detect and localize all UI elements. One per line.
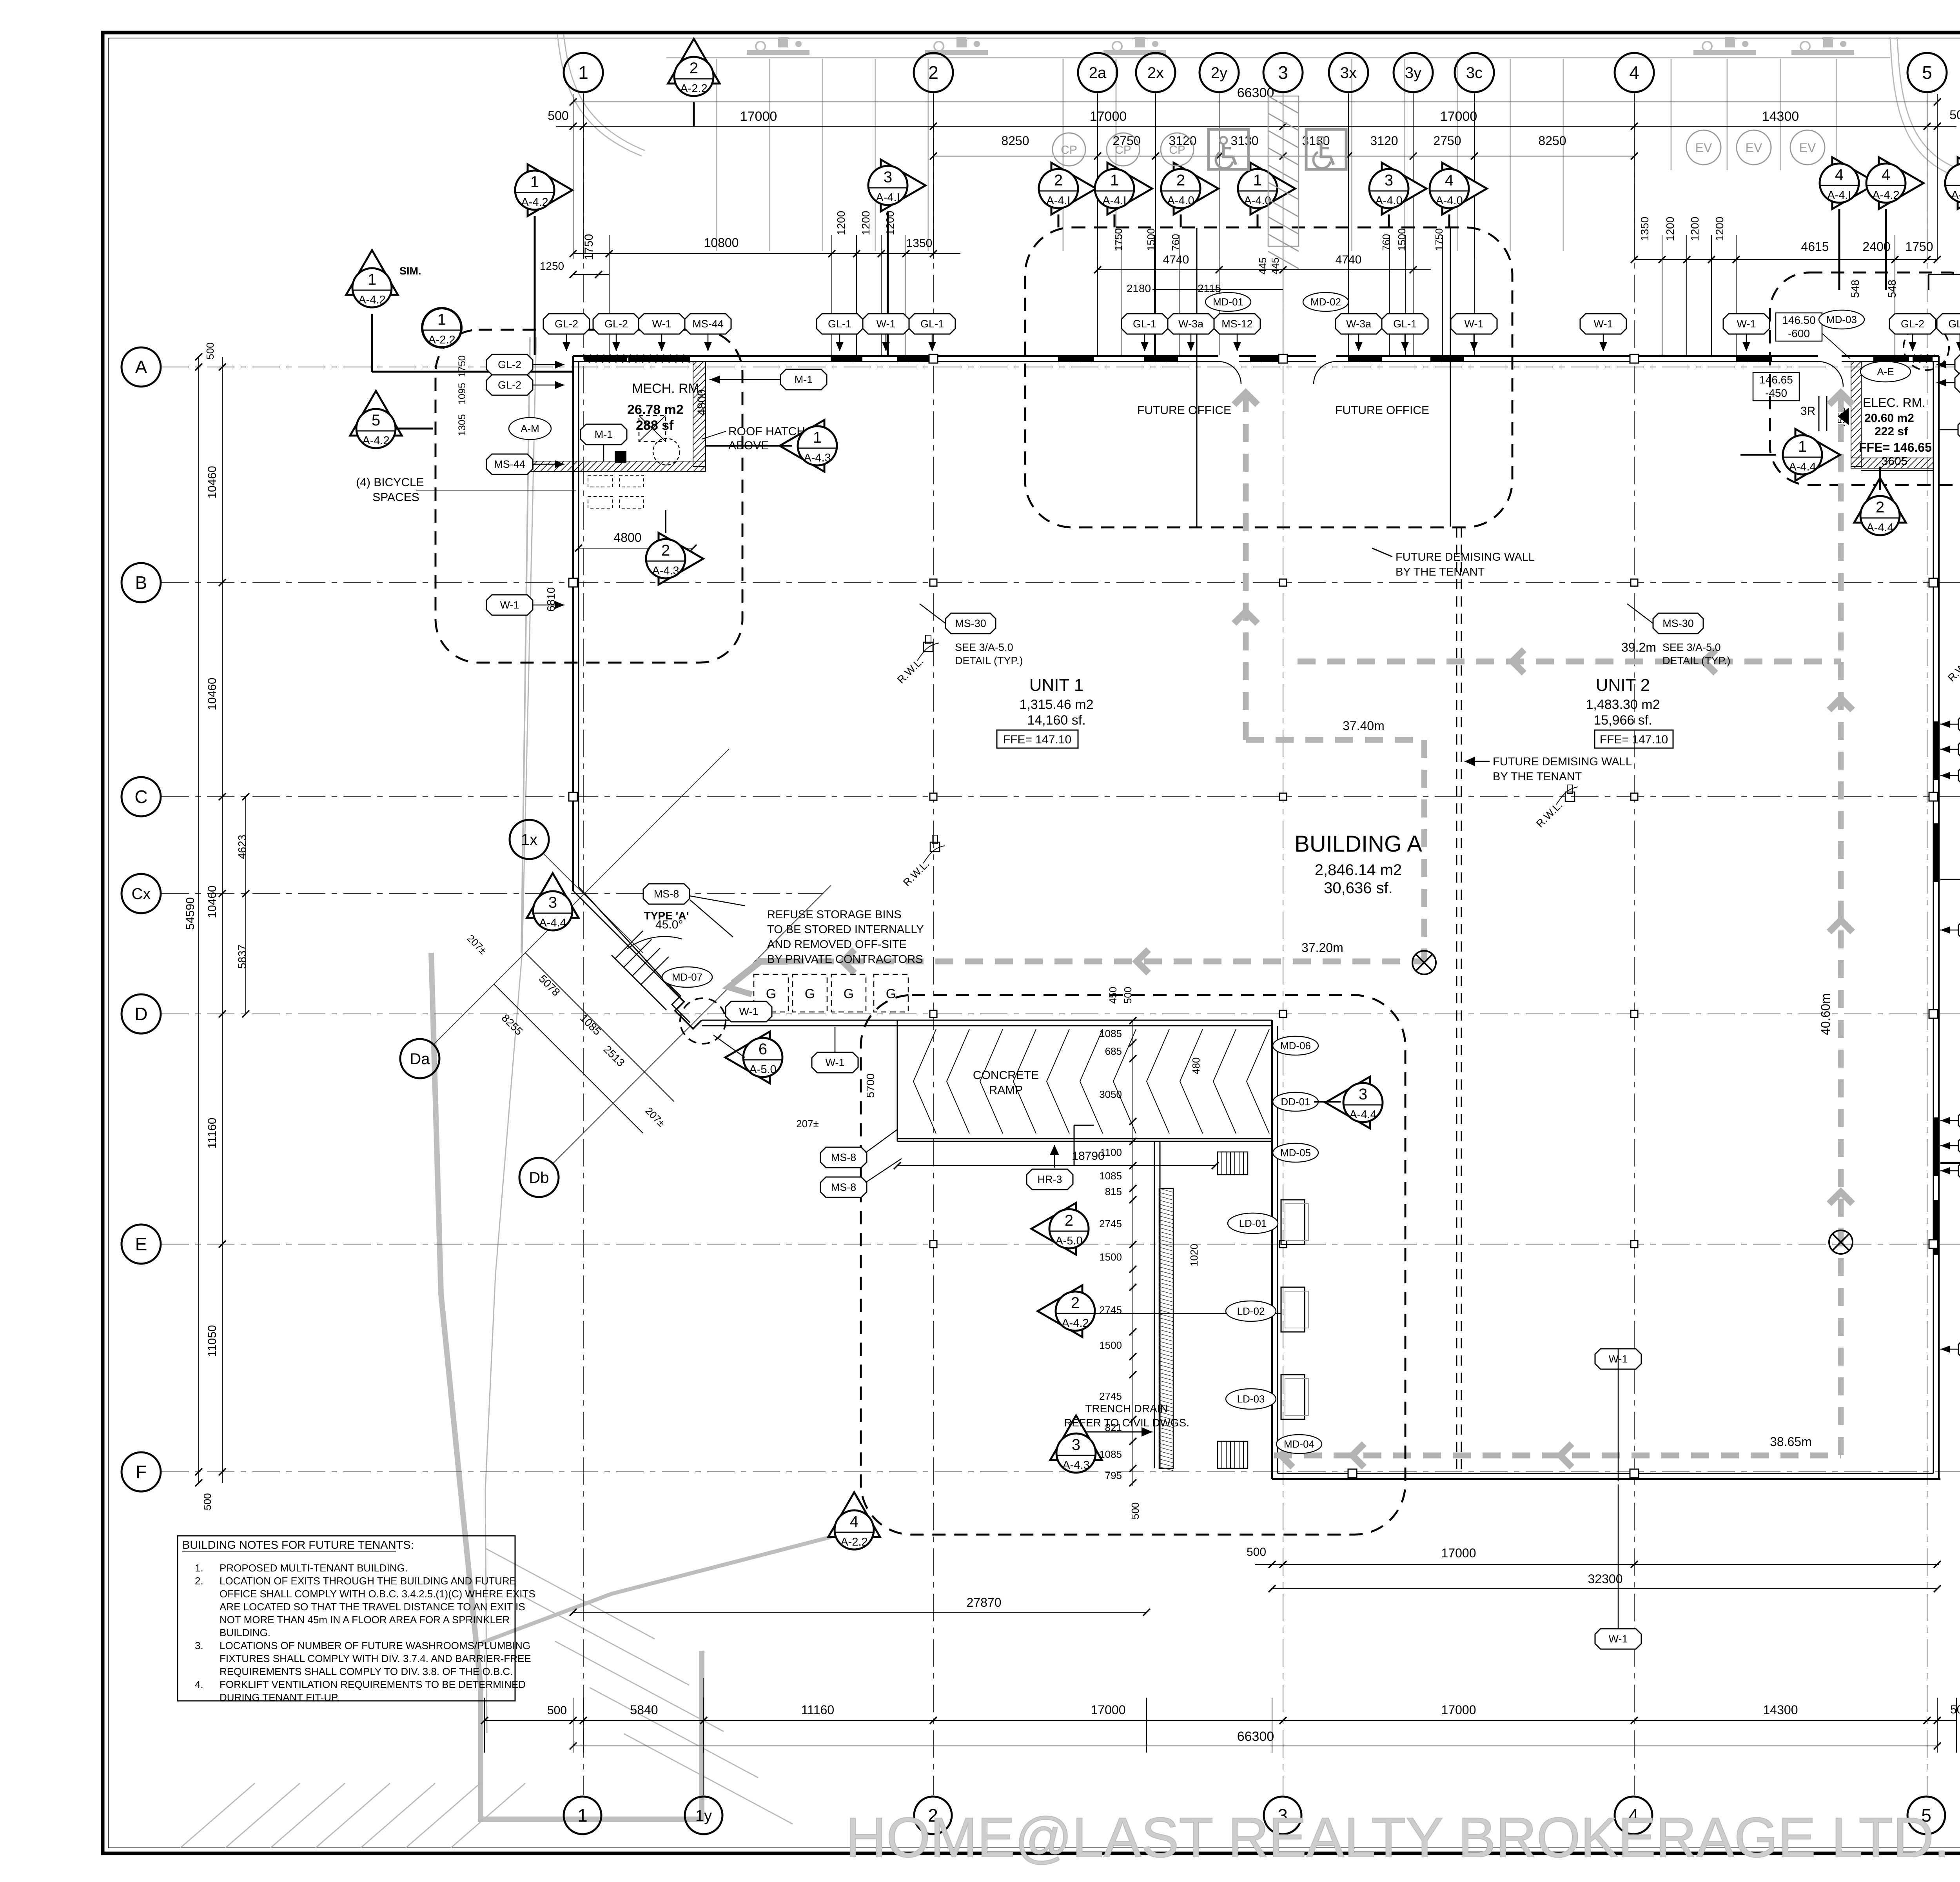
- svg-text:4: 4: [1882, 166, 1890, 183]
- mech room hatched south wall: [517, 461, 706, 471]
- dashed detail circle: [1904, 325, 1949, 370]
- svg-text:1200: 1200: [860, 211, 872, 235]
- trench drain: [1159, 1188, 1173, 1468]
- south wing local dims: [1255, 1564, 1939, 1565]
- svg-text:3: 3: [1359, 1086, 1367, 1103]
- travel path unit 1 horizontal 37.20m: [757, 959, 1424, 965]
- keynote tag MS-8: [820, 1147, 867, 1168]
- north wall glazing segment: [629, 356, 690, 361]
- svg-text:760: 760: [1170, 234, 1181, 251]
- svg-text:500: 500: [1949, 108, 1960, 122]
- EV circles: [1686, 130, 1721, 165]
- top dimension row 17000s: [556, 126, 1956, 127]
- travel path unit 1 vertical 2: [1421, 740, 1427, 961]
- svg-text:6: 6: [759, 1041, 767, 1058]
- mech room dashed boundary: [436, 330, 742, 663]
- svg-text:4800: 4800: [613, 530, 641, 545]
- svg-text:66300: 66300: [1237, 1729, 1274, 1744]
- tag MD-04: [1276, 1435, 1322, 1453]
- svg-text:W-1: W-1: [739, 1006, 758, 1017]
- svg-text:MS-30: MS-30: [955, 618, 986, 629]
- grid bubble A: [122, 347, 161, 387]
- svg-text:DURING TENANT FIT-UP.: DURING TENANT FIT-UP.: [220, 1691, 339, 1703]
- grid line Cx: [162, 893, 823, 894]
- svg-text:SIM.: SIM.: [399, 265, 421, 277]
- grid bubble D: [122, 994, 161, 1034]
- svg-text:W-3a: W-3a: [1346, 318, 1372, 330]
- svg-text:1085: 1085: [1099, 1170, 1122, 1182]
- dock dashed boundary: [861, 995, 1405, 1535]
- svg-text:DD-01: DD-01: [1281, 1096, 1310, 1108]
- left detail dim row: [573, 253, 960, 254]
- svg-text:W-3a: W-3a: [1178, 318, 1204, 330]
- svg-text:1: 1: [577, 1805, 588, 1826]
- grid line C: [162, 796, 1960, 797]
- svg-text:3120: 3120: [1370, 134, 1398, 148]
- svg-text:450: 450: [1107, 987, 1119, 1004]
- svg-text:2: 2: [1176, 172, 1185, 189]
- svg-text:1500: 1500: [1145, 228, 1157, 251]
- svg-text:17000: 17000: [740, 109, 777, 124]
- concrete ramp: [897, 1021, 898, 1141]
- section marker 5/A-4.2: [350, 391, 402, 436]
- section marker 3/A-4.4: [527, 873, 579, 918]
- svg-text:4: 4: [1445, 172, 1454, 189]
- svg-text:(4) BICYCLE: (4) BICYCLE: [356, 476, 424, 489]
- north wall glazing segment: [1348, 356, 1382, 361]
- svg-text:821: 821: [1105, 1422, 1122, 1433]
- svg-text:1100: 1100: [1100, 1146, 1122, 1158]
- svg-text:11050: 11050: [206, 1325, 219, 1357]
- keynote tag M-1: [780, 369, 827, 390]
- svg-text:14,160 sf.: 14,160 sf.: [1027, 713, 1085, 728]
- svg-text:500: 500: [201, 1493, 213, 1510]
- svg-text:A-4.3: A-4.3: [652, 565, 679, 577]
- svg-text:10460: 10460: [206, 885, 219, 918]
- keynote tag GL-2: [593, 314, 639, 334]
- grid bubble 3y: [1394, 53, 1433, 92]
- north wall glazing segment: [1737, 356, 1772, 361]
- grid bubble 5: [1907, 1797, 1945, 1834]
- parking meter marks: [756, 42, 765, 51]
- tag MD-02: [1303, 292, 1348, 311]
- wheelchair sign 1: [1209, 129, 1249, 169]
- keynote tag GL-1: [1958, 714, 1960, 734]
- travel path unit 1 horizontal 37.40m: [1246, 737, 1424, 743]
- svg-text:1500: 1500: [1099, 1339, 1122, 1351]
- svg-text:UNIT 2: UNIT 2: [1596, 676, 1650, 695]
- section marker 4/A-2.2: [828, 1492, 880, 1537]
- keynote tag GL-1: [1382, 314, 1428, 334]
- svg-text:FFE= 147.10: FFE= 147.10: [1600, 733, 1668, 746]
- west wall diagonal: [573, 891, 666, 984]
- mech room hatched east wall: [693, 362, 706, 467]
- grid line 1x diagonal: [543, 853, 643, 953]
- svg-text:TRENCH DRAIN: TRENCH DRAIN: [1085, 1402, 1168, 1415]
- svg-text:CP: CP: [1115, 144, 1131, 156]
- north wall door opening MD-02: [1316, 355, 1336, 362]
- grid bubble 2: [914, 53, 953, 92]
- svg-text:A-2.2: A-2.2: [428, 334, 455, 346]
- svg-text:MD-01: MD-01: [1213, 296, 1243, 308]
- svg-text:1200: 1200: [1713, 217, 1726, 241]
- dock stairs top MD-05: [1217, 1152, 1218, 1175]
- keynote tag GL-1: [817, 314, 863, 334]
- svg-text:ARE LOCATED SO THAT THE TRAVEL: ARE LOCATED SO THAT THE TRAVEL DISTANCE …: [220, 1601, 525, 1613]
- svg-text:MD-06: MD-06: [1280, 1040, 1311, 1052]
- road curves right: [1890, 37, 1960, 182]
- svg-text:1085: 1085: [1099, 1028, 1122, 1039]
- svg-text:2115: 2115: [1198, 282, 1221, 294]
- svg-text:EV: EV: [1799, 141, 1816, 155]
- keynote tag GL-2: [543, 314, 590, 334]
- svg-text:A-4.2: A-4.2: [1872, 189, 1899, 202]
- grid bubble 2: [914, 1797, 952, 1834]
- svg-text:E: E: [135, 1234, 147, 1254]
- tag LD-02: [1226, 1301, 1276, 1321]
- north wall: [573, 355, 1939, 357]
- grid line F: [162, 1471, 1960, 1472]
- svg-text:445: 445: [1257, 258, 1269, 274]
- travel path 39.2m horizontal: [1298, 659, 1841, 665]
- svg-text:4: 4: [850, 1513, 858, 1530]
- svg-text:445: 445: [1269, 258, 1281, 274]
- keynote tag W-1: [1723, 314, 1769, 334]
- svg-text:LOCATIONS OF NUMBER OF FUTURE: LOCATIONS OF NUMBER OF FUTURE WASHROOMS/…: [220, 1640, 530, 1651]
- top dimension row detail: [933, 156, 1634, 156]
- svg-text:C: C: [134, 787, 147, 807]
- section marker 1/A-4.0: [1250, 163, 1295, 214]
- grid line Da diagonal: [434, 749, 729, 1045]
- svg-text:685: 685: [1105, 1045, 1122, 1057]
- left dimension chain: [198, 357, 199, 1483]
- svg-text:MD-05: MD-05: [1280, 1147, 1311, 1159]
- svg-text:LD-02: LD-02: [1237, 1305, 1265, 1317]
- svg-text:G: G: [766, 986, 776, 1001]
- svg-text:CP: CP: [1061, 144, 1077, 156]
- svg-text:M-1: M-1: [795, 374, 813, 385]
- svg-text:A-4.3: A-4.3: [804, 452, 831, 464]
- CP circles: [1053, 133, 1085, 166]
- svg-text:548: 548: [1886, 280, 1898, 298]
- keynote tag W-1: [1958, 1135, 1960, 1156]
- north wall door opening MD-01: [1218, 355, 1239, 362]
- svg-text:500: 500: [547, 1704, 567, 1717]
- travel path 38.65m horizontal: [1274, 1453, 1841, 1459]
- svg-text:32300: 32300: [1588, 1572, 1623, 1586]
- section marker 3/A-4.0: [1382, 163, 1426, 214]
- interior dims 2180/2115/445: [1152, 289, 1283, 290]
- svg-text:A-4.2: A-4.2: [521, 196, 548, 209]
- accessible hatch strip: [1268, 96, 1299, 246]
- diagonal exit stair jog: [666, 984, 702, 1029]
- svg-text:FFE= 146.65: FFE= 146.65: [1859, 440, 1932, 454]
- svg-text:2a: 2a: [1089, 64, 1107, 82]
- travel path unit 1 vertical: [1243, 394, 1249, 740]
- svg-text:3R: 3R: [1800, 405, 1815, 418]
- grid bubble F: [122, 1452, 161, 1491]
- tag LD-01: [1228, 1213, 1278, 1233]
- grid bubble 1: [564, 53, 603, 92]
- svg-text:1350: 1350: [1639, 217, 1651, 241]
- svg-text:4740: 4740: [1163, 253, 1189, 266]
- svg-text:HR-3: HR-3: [1037, 1174, 1062, 1185]
- svg-text:3.: 3.: [195, 1640, 203, 1651]
- svg-text:ROOF HATCH: ROOF HATCH: [728, 425, 805, 438]
- north wall glazing segment: [898, 356, 931, 361]
- svg-text:17000: 17000: [1440, 109, 1477, 124]
- grid line 3x: [1348, 93, 1349, 254]
- svg-text:37.40m: 37.40m: [1343, 719, 1385, 733]
- svg-text:MS-8: MS-8: [831, 1181, 857, 1193]
- section marker 1/A-4.2: [346, 250, 398, 295]
- grid bubble 3x: [1329, 53, 1368, 92]
- keynote tag W-1: [1958, 1339, 1960, 1359]
- svg-text:A-4.4: A-4.4: [1789, 461, 1816, 473]
- svg-text:1350: 1350: [906, 237, 933, 250]
- svg-text:1,315.46 m2: 1,315.46 m2: [1019, 697, 1093, 712]
- svg-text:A-4.I: A-4.I: [1102, 194, 1126, 207]
- keynote tag W-1: [1958, 920, 1960, 940]
- grid bubble 3: [1263, 53, 1303, 92]
- svg-text:17000: 17000: [1441, 1703, 1476, 1717]
- dock dim chain: [1132, 1021, 1133, 1486]
- svg-text:AND REMOVED OFF-SITE: AND REMOVED OFF-SITE: [767, 938, 907, 951]
- svg-text:1750: 1750: [583, 234, 595, 260]
- svg-text:LOCATION OF EXITS THROUGH THE: LOCATION OF EXITS THROUGH THE BUILDING A…: [220, 1575, 516, 1587]
- keynote tag M-1: [581, 424, 627, 445]
- tag LD-03: [1226, 1389, 1276, 1409]
- svg-text:MS-8: MS-8: [831, 1152, 857, 1163]
- section marker 1/A-4.4: [1795, 429, 1840, 481]
- svg-text:2745: 2745: [1099, 1304, 1122, 1316]
- grid bubble 1y: [685, 1797, 722, 1834]
- svg-text:FUTURE DEMISING WALL: FUTURE DEMISING WALL: [1396, 551, 1535, 563]
- svg-text:F: F: [136, 1462, 147, 1482]
- svg-text:W-1: W-1: [825, 1057, 844, 1068]
- svg-text:BY PRIVATE CONTRACTORS: BY PRIVATE CONTRACTORS: [767, 953, 923, 966]
- svg-text:-450: -450: [1765, 387, 1787, 399]
- grid bubble Cx: [122, 874, 161, 913]
- svg-text:Cx: Cx: [132, 885, 151, 903]
- svg-text:2180: 2180: [1127, 282, 1151, 294]
- grid line 4: [1634, 93, 1635, 1795]
- svg-text:MS-12: MS-12: [1221, 318, 1253, 330]
- svg-text:A-4.3: A-4.3: [1062, 1459, 1089, 1471]
- svg-text:500: 500: [1122, 987, 1134, 1004]
- svg-text:M-1: M-1: [595, 429, 613, 440]
- svg-text:4623: 4623: [236, 835, 248, 859]
- svg-text:1750: 1750: [1905, 240, 1933, 254]
- svg-text:11160: 11160: [206, 1118, 219, 1149]
- svg-text:GL-2: GL-2: [555, 318, 578, 330]
- section marker 3/A-4.4: [1325, 1077, 1370, 1128]
- svg-text:1500: 1500: [1396, 228, 1408, 251]
- svg-text:500: 500: [1129, 1502, 1141, 1519]
- section marker 3/A-4.I: [881, 160, 926, 211]
- svg-text:795: 795: [1105, 1470, 1122, 1481]
- grid bubble Db: [519, 1158, 559, 1197]
- svg-text:2: 2: [1071, 1294, 1080, 1312]
- svg-text:GL-2: GL-2: [1901, 318, 1924, 330]
- parking lot top edge: [666, 57, 1890, 58]
- keynote tag GL-2: [1937, 314, 1960, 334]
- svg-text:3: 3: [1278, 62, 1288, 83]
- section marker 2/A-4.3: [659, 533, 703, 585]
- svg-text:B: B: [135, 572, 147, 593]
- svg-text:3c: 3c: [1466, 64, 1483, 82]
- svg-text:A: A: [135, 357, 147, 377]
- svg-text:10800: 10800: [704, 236, 739, 250]
- section marker 1/A-4.2: [1958, 157, 1960, 209]
- svg-text:2.: 2.: [195, 1575, 203, 1587]
- east wall glazing segment: [1934, 1117, 1938, 1176]
- svg-text:A-4.0: A-4.0: [1375, 194, 1402, 207]
- section marker 4/A-4.0: [1442, 163, 1487, 214]
- svg-text:A-4.2: A-4.2: [1951, 189, 1960, 202]
- elec room hatched south wall: [1851, 458, 1933, 468]
- section marker 2/A-2.2: [668, 39, 720, 84]
- north wall door opening MD-03: [1818, 355, 1842, 362]
- parking stall lines: [716, 59, 717, 251]
- svg-text:37.20m: 37.20m: [1301, 941, 1343, 955]
- svg-text:A-4.I: A-4.I: [876, 191, 900, 204]
- keynote tag GL-1: [909, 314, 955, 334]
- svg-text:1,483.30 m2: 1,483.30 m2: [1586, 697, 1660, 712]
- svg-text:1: 1: [1253, 172, 1262, 189]
- svg-text:3x: 3x: [1340, 64, 1357, 82]
- svg-text:GL-2: GL-2: [604, 318, 628, 330]
- right detail dim row: [1634, 259, 1937, 260]
- gray hatch driveway bottom-left: [180, 1783, 255, 1848]
- level boxes: [1776, 313, 1822, 341]
- roof drain cross symbol 2: [1829, 1230, 1853, 1254]
- svg-text:CP: CP: [1169, 144, 1185, 156]
- svg-text:2: 2: [690, 60, 698, 77]
- svg-text:REQUIREMENTS SHALL COMPLY TO D: REQUIREMENTS SHALL COMPLY TO DIV. 3.8. O…: [220, 1666, 513, 1677]
- svg-text:MS-44: MS-44: [494, 458, 525, 470]
- grid line 2x: [1155, 93, 1156, 254]
- svg-text:4615: 4615: [1801, 240, 1829, 254]
- future office dashed boundary: [1025, 227, 1512, 527]
- svg-text:LD-03: LD-03: [1237, 1393, 1265, 1405]
- svg-text:EV: EV: [1695, 141, 1712, 155]
- svg-text:SEE 3/A-5.0: SEE 3/A-5.0: [955, 641, 1013, 653]
- svg-text:D: D: [134, 1004, 147, 1024]
- keynote tag MS-8: [643, 884, 690, 904]
- keynote tag GL-1: [1958, 1161, 1960, 1181]
- svg-text:GL-2: GL-2: [1948, 318, 1960, 330]
- tag MD-05: [1273, 1143, 1318, 1162]
- svg-text:W-1: W-1: [1593, 318, 1613, 330]
- svg-text:2750: 2750: [1433, 134, 1461, 148]
- svg-text:A-M: A-M: [521, 423, 539, 434]
- svg-text:3y: 3y: [1405, 64, 1421, 82]
- bottom dim extension lines: [484, 1698, 485, 1753]
- tag DD-01: [1273, 1092, 1318, 1111]
- svg-text:DETAIL (TYP.): DETAIL (TYP.): [955, 655, 1023, 667]
- svg-text:FUTURE DEMISING WALL: FUTURE DEMISING WALL: [1493, 756, 1632, 768]
- section marker 3/A-4.3: [1050, 1415, 1102, 1460]
- svg-text:2y: 2y: [1211, 64, 1227, 82]
- grid line 3: [1283, 93, 1283, 1795]
- svg-text:38.65m: 38.65m: [1770, 1435, 1812, 1449]
- keynote tag MS-44: [685, 314, 731, 334]
- svg-text:Da: Da: [410, 1050, 430, 1068]
- svg-text:A-5.0: A-5.0: [1055, 1235, 1082, 1247]
- svg-text:1085: 1085: [1099, 1448, 1122, 1460]
- svg-text:TO BE STORED INTERNALLY: TO BE STORED INTERNALLY: [767, 923, 924, 936]
- svg-text:W-1: W-1: [876, 318, 895, 330]
- svg-text:MD-07: MD-07: [672, 971, 702, 983]
- keynote tag MS-30: [1653, 613, 1703, 634]
- svg-text:2,846.14 m2: 2,846.14 m2: [1315, 861, 1402, 879]
- section marker 2/A-4.0: [1174, 163, 1218, 214]
- svg-text:11160: 11160: [801, 1703, 834, 1717]
- svg-text:1: 1: [368, 271, 376, 288]
- grid bubble 2a: [1078, 53, 1117, 92]
- svg-text:GL-1: GL-1: [828, 318, 851, 330]
- svg-text:UNIT 1: UNIT 1: [1029, 676, 1084, 695]
- 18790 dim: [897, 1165, 1215, 1166]
- svg-text:1200: 1200: [1664, 217, 1676, 241]
- keynote tag W-1: [1595, 1349, 1641, 1369]
- svg-text:A-E: A-E: [1877, 366, 1894, 378]
- svg-text:BUILDING NOTES FOR FUTURE TENA: BUILDING NOTES FOR FUTURE TENANTS:: [182, 1539, 414, 1551]
- keynote tag W-3a: [1336, 314, 1382, 334]
- svg-text:GL-2: GL-2: [498, 379, 521, 391]
- svg-text:1: 1: [530, 173, 539, 191]
- svg-text:500: 500: [1247, 1546, 1266, 1559]
- svg-text:A-4.2: A-4.2: [1062, 1317, 1089, 1330]
- svg-text:17000: 17000: [1091, 1703, 1126, 1717]
- svg-text:17000: 17000: [1441, 1546, 1476, 1560]
- grid bubble 1: [564, 1797, 601, 1834]
- roof hatch + ladder: [639, 416, 666, 441]
- dock stairs bottom MD-04: [1217, 1441, 1218, 1468]
- svg-text:BUILDING.: BUILDING.: [220, 1627, 270, 1639]
- grid line A: [162, 367, 1960, 367]
- svg-text:A-4.4: A-4.4: [539, 917, 566, 929]
- grid bubble 4: [1615, 53, 1654, 92]
- dock east wall: [1271, 1020, 1273, 1479]
- svg-text:20.60 m2: 20.60 m2: [1864, 412, 1914, 425]
- svg-text:MD-02: MD-02: [1310, 296, 1341, 308]
- svg-text:TYPE 'A': TYPE 'A': [644, 910, 689, 922]
- grid line 1: [583, 93, 584, 1795]
- svg-text:OFFICE SHALL COMPLY WITH O.B.C: OFFICE SHALL COMPLY WITH O.B.C. 3.4.2.5.…: [220, 1588, 535, 1600]
- svg-text:W-1: W-1: [500, 599, 519, 611]
- grid bubble 5: [1907, 53, 1947, 92]
- grid bubble C: [122, 777, 161, 816]
- grid line E: [162, 1244, 1960, 1244]
- keynote tag GL-2: [1889, 314, 1936, 334]
- north wall hatched sill at mech: [584, 354, 690, 363]
- roof drain squares: [924, 642, 933, 652]
- svg-text:REFER TO CIVIL DWGS.: REFER TO CIVIL DWGS.: [1064, 1417, 1189, 1429]
- grid line 2y: [1219, 93, 1220, 254]
- travel path unit 2 vertical at MD-03: [1838, 394, 1844, 1455]
- travel path end arrow at MD-07: [733, 961, 788, 983]
- ramp handrail: [1074, 1125, 1075, 1166]
- svg-text:1: 1: [1798, 438, 1807, 455]
- keynote tag MS-30: [946, 613, 996, 634]
- svg-text:1: 1: [437, 311, 446, 328]
- section marker 1/A-4.2: [528, 164, 572, 216]
- east wall glazing segment: [1934, 823, 1938, 882]
- svg-text:5: 5: [1922, 62, 1932, 83]
- svg-text:4: 4: [1629, 62, 1639, 83]
